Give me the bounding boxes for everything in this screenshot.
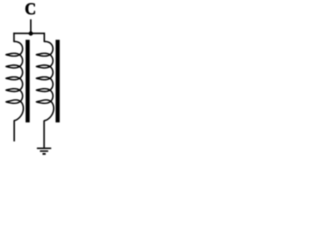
inductor L2 (36, 42, 53, 121)
wire right stub (43, 33, 45, 42)
inductor L1 (6, 42, 23, 121)
core bar right (56, 40, 60, 123)
wire top horizontal (13, 32, 45, 34)
core bar left (26, 40, 30, 123)
wire left stub (13, 33, 15, 42)
wire left bottom (13, 120, 15, 141)
node junction dot (29, 31, 33, 35)
ground (37, 148, 51, 154)
node C label (26, 3, 35, 14)
wire from node C to junction (30, 19, 32, 33)
wire right bottom (43, 120, 45, 147)
